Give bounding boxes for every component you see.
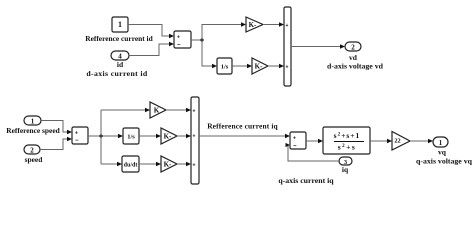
- wire inport iq to sum3: [286, 143, 340, 161]
- wire inport1 to sum2: [41, 121, 72, 135]
- derivative du/dt: [122, 156, 139, 172]
- wire top branch to gain K: [101, 108, 150, 112]
- gain K (integral, d-axis): [252, 58, 268, 74]
- svg-text:Refference speed: Refference speed: [6, 126, 60, 135]
- outport 1 (vq): [433, 137, 448, 147]
- svg-text:K-: K-: [164, 133, 172, 141]
- svg-text:−: −: [75, 138, 79, 144]
- svg-text:+: +: [286, 23, 289, 29]
- svg-text:+: +: [193, 134, 196, 140]
- integrator 1/s (d-axis): [217, 58, 232, 74]
- wire sum3 to transfer fcn: [306, 139, 323, 143]
- svg-text:+: +: [193, 109, 196, 115]
- node branch junction: [99, 134, 102, 137]
- svg-text:Refference current id: Refference current id: [85, 34, 153, 43]
- svg-text:Refference current iq: Refference current iq: [207, 122, 278, 131]
- constant block "1" (Refference current id): [112, 17, 128, 32]
- svg-text:1/s: 1/s: [127, 134, 135, 141]
- wire gain 22 to outport vq: [410, 139, 433, 143]
- svg-text:+: +: [177, 35, 180, 41]
- sum block Sum2 (+-): [72, 127, 88, 144]
- svg-text:du/dt: du/dt: [124, 163, 138, 169]
- sum block Sum3 (+-): [290, 132, 306, 150]
- wire sum2 to branch junction: [88, 135, 119, 137]
- wire junction down to integrator: [202, 40, 217, 68]
- svg-text:d-axis current id: d-axis current id: [86, 69, 148, 78]
- wire gain to add2 bottom: [177, 162, 191, 166]
- add block Add2 (vertical): [191, 97, 199, 184]
- svg-text:d-axis voltage vd: d-axis voltage vd: [327, 62, 384, 71]
- arrowhead into integrator2: [118, 134, 123, 138]
- gain K (integral, speed): [161, 128, 177, 144]
- svg-text:iq: iq: [342, 165, 349, 174]
- svg-text:+: +: [193, 163, 196, 169]
- wire branch vertical: [100, 110, 102, 164]
- wire gain to add2 middle: [177, 134, 191, 138]
- wire gain to add2 top: [166, 108, 191, 112]
- gain K (proportional, speed): [150, 102, 166, 118]
- svg-text:1: 1: [439, 139, 443, 147]
- add block Add1 (vertical): [284, 7, 291, 86]
- svg-text:2: 2: [30, 147, 34, 155]
- wire add2 to sum3 (Refference current iq): [199, 134, 290, 138]
- svg-text:K-: K-: [255, 63, 263, 71]
- svg-text:22: 22: [394, 138, 400, 145]
- svg-text:speed: speed: [25, 155, 44, 164]
- inport 1 (Refference speed): [24, 116, 41, 126]
- svg-text:+: +: [75, 131, 78, 137]
- wire integrator to gain: [232, 64, 252, 68]
- inport 2 (speed): [24, 145, 40, 155]
- wire bottom branch to derivative: [101, 162, 122, 166]
- svg-text:q-axis voltage vq: q-axis voltage vq: [416, 157, 473, 166]
- inport 4 (id): [111, 51, 129, 61]
- svg-text:s2+s: s2+s: [338, 143, 357, 152]
- svg-text:K: K: [154, 107, 160, 115]
- wire constant1 to sum1: [128, 25, 174, 39]
- wire derivative to gain: [139, 162, 161, 166]
- svg-text:+: +: [286, 65, 289, 71]
- wire junction up to gain P: [202, 22, 246, 40]
- wire inport id to sum1: [129, 42, 174, 56]
- svg-text:1/s: 1/s: [221, 64, 229, 71]
- svg-text:K-: K-: [249, 21, 257, 29]
- svg-text:vq: vq: [438, 148, 447, 157]
- svg-text:+: +: [293, 136, 296, 142]
- integrator 1/s (speed): [123, 128, 139, 144]
- svg-text:−: −: [177, 43, 181, 49]
- inport 3 (iq): [339, 157, 352, 166]
- gain K (proportional, d-axis): [246, 17, 263, 32]
- wire integrator2 to gain: [139, 134, 161, 138]
- gain 22: [392, 132, 410, 151]
- svg-text:−: −: [293, 144, 297, 150]
- wire add1 to outport vd: [291, 44, 345, 48]
- svg-text:2: 2: [351, 44, 355, 52]
- wire sum1 output to junction: [191, 39, 202, 41]
- svg-text:1: 1: [118, 20, 122, 29]
- svg-text:q-axis current iq: q-axis current iq: [278, 176, 334, 185]
- wire gain to add1 lower input: [268, 64, 284, 68]
- sum block Sum1 (+-): [174, 31, 191, 49]
- wire gain to add1: [263, 22, 284, 26]
- svg-text:K-: K-: [164, 161, 172, 169]
- svg-text:1: 1: [31, 118, 35, 126]
- gain K (derivative, speed): [161, 156, 177, 172]
- svg-text:id: id: [117, 60, 124, 69]
- outport 2 (vd): [345, 42, 361, 52]
- wire transfer fcn to gain 22: [370, 139, 392, 143]
- transfer function (s^2+s+1)/(s^2+s): [323, 127, 370, 154]
- node junction after Sum1: [200, 38, 203, 41]
- wire inport2 to sum2: [40, 137, 72, 150]
